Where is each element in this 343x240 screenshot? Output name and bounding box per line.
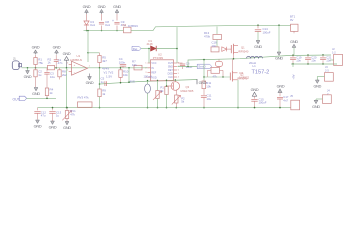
svg-text:100n: 100n <box>119 60 126 64</box>
svg-text:0u1: 0u1 <box>90 23 95 27</box>
svg-text:GND: GND <box>98 5 106 9</box>
svg-text:GND: GND <box>199 81 207 85</box>
capacitor C14 <box>257 25 259 28</box>
resistor R9 <box>98 89 101 97</box>
pin R2 <box>174 66 178 68</box>
capacitor C18 <box>211 47 219 52</box>
wire Q2 to bus <box>237 80 239 108</box>
capacitor C1 <box>55 55 57 60</box>
junction C13 bus <box>254 107 256 109</box>
capacitor C2 <box>35 68 37 70</box>
resistor R7 <box>134 65 142 70</box>
wire main to wireB at 129 <box>128 68 130 82</box>
wire Q3 up <box>174 80 176 82</box>
wire C2 to ground <box>35 77 37 87</box>
wire divider <box>216 40 218 47</box>
net label SenD <box>197 64 211 68</box>
wire J4 gnd <box>316 98 323 100</box>
junction jack gnd <box>27 67 29 69</box>
svg-text:10u: 10u <box>50 75 55 79</box>
trimmer P2 <box>175 95 178 103</box>
trimmer RV1 <box>66 108 68 111</box>
wire diode to x177 <box>156 48 177 50</box>
svg-text:47u: 47u <box>41 114 46 118</box>
junction R10 main <box>120 67 122 69</box>
net label Ret <box>132 46 141 50</box>
wire to ground under jack <box>27 68 29 71</box>
svg-text:1.5V: 1.5V <box>106 75 112 79</box>
wire diode drop to U2 <box>148 49 150 64</box>
wire col R14 <box>166 80 168 86</box>
connector J1 input jack <box>12 61 19 70</box>
capacitor C3 <box>46 68 48 72</box>
wire R12 C17 <box>203 89 205 95</box>
svg-text:AGD: AGD <box>151 76 156 79</box>
svg-text:100mH: 100mH <box>144 75 153 79</box>
svg-text:GND: GND <box>277 85 285 89</box>
svg-text:2-3: 2-3 <box>325 69 329 73</box>
wire rail to GND <box>278 25 280 52</box>
svg-text:GND: GND <box>113 5 121 9</box>
inductor L2 <box>145 84 151 93</box>
inductor L1 <box>246 56 250 58</box>
pin L3 <box>148 72 151 74</box>
junction C14 <box>257 24 259 26</box>
svg-text:1u: 1u <box>38 73 42 77</box>
trimmer P1 <box>156 91 159 99</box>
junction diode wire x177 <box>176 48 178 50</box>
svg-text:4k7: 4k7 <box>102 59 107 63</box>
wire main to bottom bus <box>66 68 68 108</box>
svg-text:GND: GND <box>251 88 259 92</box>
wire C3 to R4 <box>46 74 48 88</box>
svg-text:J5: J5 <box>290 94 293 98</box>
svg-text:VCC: VCC <box>151 62 156 65</box>
svg-text:PT2399: PT2399 <box>153 56 164 60</box>
wire Ret to diode <box>141 48 150 50</box>
connector J4 <box>323 95 332 104</box>
junction wireC x204 <box>203 59 205 61</box>
diode D1 <box>151 46 157 51</box>
wire B <box>100 80 198 85</box>
resistor R14 <box>165 87 168 95</box>
pin R5 <box>174 76 178 78</box>
wire C14 to GND <box>257 32 259 41</box>
wire to Q1 gate <box>227 48 230 50</box>
svg-text:4V5: 4V5 <box>130 80 136 84</box>
resistor R13 <box>213 35 222 40</box>
pin L4 <box>148 76 151 78</box>
svg-text:GND: GND <box>63 126 71 130</box>
svg-text:2k2: 2k2 <box>62 73 67 77</box>
svg-text:CLK: CLK <box>168 76 173 79</box>
ground J3 <box>315 80 319 83</box>
ground under U1 <box>89 74 91 77</box>
connector J5 <box>291 100 300 110</box>
connector BT1 <box>291 24 299 31</box>
svg-text:Q3: Q3 <box>186 85 190 89</box>
svg-text:D3: D3 <box>240 71 244 75</box>
wire C17 bus <box>279 99 281 107</box>
capacitor C17b <box>201 95 207 97</box>
diode D2 hanging <box>218 59 220 61</box>
svg-text:OUT: OUT <box>13 97 20 101</box>
diode D5 <box>222 47 227 52</box>
svg-text:100uF: 100uF <box>259 101 267 105</box>
junction rail x88 <box>87 30 88 31</box>
ground under RV1 <box>65 122 69 125</box>
junction main vertical <box>66 67 68 69</box>
transistor Q2 <box>229 73 231 81</box>
junction P2 bus <box>176 107 178 109</box>
wire ladder bottom <box>291 63 337 65</box>
capacitor C5 <box>104 81 106 86</box>
junction Q2 bus <box>237 107 239 109</box>
wire rail to feedback <box>87 31 89 53</box>
svg-text:IN: IN <box>151 67 154 70</box>
wire send branch <box>203 60 205 77</box>
wire J2 <box>330 59 334 61</box>
svg-text:10k: 10k <box>206 84 211 88</box>
svg-text:GND: GND <box>34 125 42 129</box>
wire R14 bus <box>166 95 168 108</box>
svg-text:GND: GND <box>24 75 32 79</box>
pin L2 <box>148 67 151 69</box>
junction Ret wire <box>148 48 150 50</box>
op-amp U1 <box>72 61 88 75</box>
capacitor C6 <box>178 62 183 64</box>
wire C9 to GND <box>116 14 118 21</box>
svg-text:GND: GND <box>83 5 91 9</box>
svg-text:470k: 470k <box>204 34 211 38</box>
svg-text:GND: GND <box>312 105 320 109</box>
power flag GND sideways <box>196 79 198 84</box>
IC U2 <box>151 60 174 81</box>
wire gate Q2 <box>204 76 230 78</box>
wire C8 to rail <box>101 26 103 31</box>
junction Q1 wireC <box>233 58 235 60</box>
junction rail GND drop <box>278 24 280 26</box>
svg-text:0u1: 0u1 <box>105 23 110 27</box>
svg-text:1-2: 1-2 <box>332 50 336 54</box>
svg-text:GND: GND <box>86 81 94 85</box>
svg-text:10n: 10n <box>212 44 217 48</box>
ground under C12 <box>36 120 40 123</box>
junction output <box>99 67 101 69</box>
capacitor C9 <box>114 21 119 23</box>
wire jack to main <box>22 67 28 69</box>
wire R4 to out wire <box>46 96 48 99</box>
svg-text:D4: D4 <box>123 23 127 27</box>
svg-text:9V: 9V <box>290 18 294 22</box>
wire Q3 down <box>175 90 177 95</box>
wire rail to U2 pin <box>176 27 178 63</box>
diode D4 <box>124 27 132 33</box>
svg-text:10k: 10k <box>123 73 128 77</box>
svg-text:GND: GND <box>63 52 71 56</box>
pin R1 <box>174 62 178 64</box>
wire feedback top <box>88 52 100 54</box>
wire R12 column <box>203 77 205 81</box>
svg-text:IRF9540: IRF9540 <box>238 49 249 53</box>
svg-text:Ret: Ret <box>133 47 138 51</box>
junction R9 bus <box>99 107 101 109</box>
svg-text:GND: GND <box>32 92 40 96</box>
svg-text:MJE17005: MJE17005 <box>181 89 194 93</box>
wire RV1 gnd <box>66 119 68 122</box>
wire C <box>188 55 331 67</box>
capacitor C3 <box>84 21 89 25</box>
ground flag below BT1 <box>293 31 295 33</box>
svg-text:SenD: SenD <box>198 65 205 69</box>
capacitor C13b <box>52 108 54 111</box>
resistor R10 <box>120 68 122 70</box>
resistor R11 <box>211 68 220 74</box>
pin L1 <box>148 62 151 64</box>
svg-text:L1: L1 <box>253 64 257 68</box>
junction R10 wireB <box>120 82 122 84</box>
svg-text:4n7: 4n7 <box>283 98 288 102</box>
svg-text:GND: GND <box>254 45 262 49</box>
svg-text:T157-2: T157-2 <box>252 69 270 75</box>
wire rail to divider <box>216 27 218 35</box>
wire OUT <box>27 97 56 99</box>
ground under C13b <box>51 121 55 124</box>
connector J3 <box>325 73 334 82</box>
svg-text:Q1: Q1 <box>241 45 245 49</box>
svg-text:10n: 10n <box>296 59 301 63</box>
svg-text:10u: 10u <box>207 97 212 101</box>
resistor R12 <box>202 81 206 89</box>
svg-text:GND: GND <box>49 126 57 130</box>
junction C17b bus <box>203 107 205 109</box>
svg-text:47k: 47k <box>70 112 75 116</box>
wire P2 bus <box>175 103 177 108</box>
wire C3 to GND <box>86 14 88 21</box>
wire feedback vertical <box>87 53 89 62</box>
svg-text:1u: 1u <box>56 114 60 118</box>
svg-text:+: + <box>112 19 114 23</box>
wire bottom bus <box>38 107 292 109</box>
wire wireC to Q2 <box>232 59 234 71</box>
svg-text:REF: REF <box>151 72 156 75</box>
ground under jack <box>26 71 30 74</box>
resistor R4 <box>45 88 48 96</box>
svg-text:1u: 1u <box>101 80 105 84</box>
junction box3 <box>203 76 205 78</box>
connector J2 <box>334 54 343 65</box>
junction C17 bus <box>279 107 281 109</box>
resistor R1 <box>35 55 37 58</box>
wire Q1 to wireC <box>233 54 235 58</box>
wire R9 to bus <box>99 97 101 108</box>
svg-text:GND: GND <box>275 57 283 61</box>
capacitor C8 <box>99 21 104 23</box>
svg-text:4148: 4148 <box>147 42 153 46</box>
wire output down <box>99 68 101 89</box>
pin R4 <box>174 73 178 75</box>
trimmer RV3 <box>78 102 93 107</box>
junction OUT R4 <box>46 98 48 100</box>
svg-text:10n: 10n <box>326 59 331 63</box>
svg-text:+9V: +9V <box>292 74 296 79</box>
capacitor C21 <box>322 54 324 56</box>
svg-text:1N5819: 1N5819 <box>128 24 138 28</box>
wire top rail <box>84 30 124 32</box>
capacitor C17 <box>277 96 283 98</box>
capacitor C12 <box>37 108 39 111</box>
wire P1 bus <box>157 99 159 108</box>
transistor Q1 <box>230 45 232 53</box>
wire main signal <box>28 67 48 69</box>
junction R1 <box>35 67 37 69</box>
junction wireC x188 <box>187 66 188 67</box>
svg-text:10n: 10n <box>311 59 316 63</box>
svg-text:100uF: 100uF <box>263 30 271 34</box>
junction wireB <box>99 83 101 85</box>
capacitor C20 <box>307 54 309 56</box>
svg-text:10k: 10k <box>132 63 137 67</box>
capacitor C19 <box>292 54 294 56</box>
wire C8 to GND <box>101 14 103 21</box>
wire J3 gnd <box>317 76 324 78</box>
capacitor C4 <box>120 64 126 66</box>
junction x129 <box>128 67 130 69</box>
resistor R2 <box>48 65 55 69</box>
wire C17b bus <box>203 98 205 108</box>
svg-text:RV3 47k: RV3 47k <box>78 96 90 100</box>
transistor Q3 <box>171 82 180 91</box>
wire C9 to rail <box>116 26 118 31</box>
svg-text:1N5822: 1N5822 <box>239 76 250 80</box>
wire send <box>178 66 198 68</box>
ground under C14 <box>256 41 260 44</box>
resistor R8 <box>59 68 61 70</box>
resistor R5 <box>99 53 101 56</box>
capacitor C13 <box>254 96 256 98</box>
svg-text:D1: D1 <box>149 39 153 43</box>
junction R2 out <box>55 67 57 69</box>
ground J4 <box>314 100 318 103</box>
wire C3 to rail <box>86 26 88 31</box>
svg-text:47n: 47n <box>58 61 63 65</box>
ground at rail drop <box>277 52 281 55</box>
wire col L2 <box>147 81 149 84</box>
svg-text:47k: 47k <box>213 74 218 78</box>
wire col P1 <box>157 80 159 90</box>
junction feedback <box>87 52 89 54</box>
svg-text:GND: GND <box>313 85 321 89</box>
svg-text:GND: GND <box>53 45 61 49</box>
ground under C2 <box>34 88 38 91</box>
wire L2 bus <box>147 93 149 107</box>
svg-text:GND: GND <box>290 40 298 44</box>
junction bus vertical <box>66 107 68 109</box>
svg-text:75k: 75k <box>38 61 43 65</box>
pin R3 <box>174 69 178 71</box>
svg-text:GND: GND <box>32 45 40 49</box>
